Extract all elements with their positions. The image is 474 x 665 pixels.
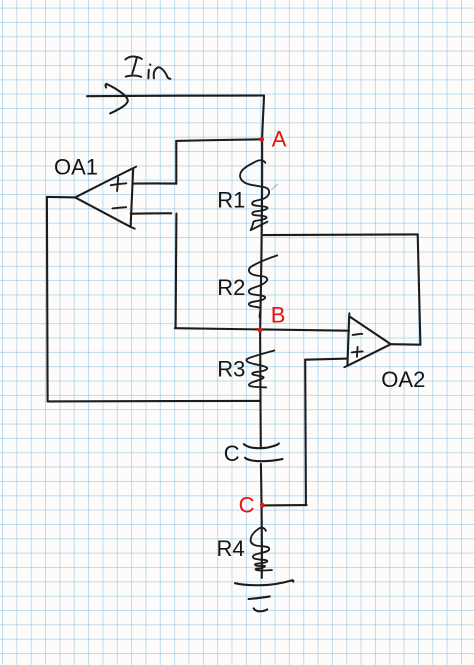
OA1 corner overshoots [133,167,136,169]
wire node C stub right [262,504,306,506]
wire OA2 plus drop vertical [304,360,307,505]
ground bar 3 [254,608,268,611]
label Iin handwritten [125,57,170,79]
svg-text:R2: R2 [217,275,245,300]
node C dot [260,503,265,508]
wire right feedback vertical [418,234,421,344]
wire minus input vertical drop [175,214,178,328]
wire left feedback vertical [46,197,49,402]
svg-text:C: C [239,492,255,517]
resistor R2 [249,255,277,317]
wire OA1 output [47,196,75,199]
op-amp OA2 [347,316,390,366]
resistor R3 [246,351,274,388]
wire bottom feedback horizontal [48,400,260,403]
wire trunk node B to capacitor [259,330,262,446]
capacitor C bottom plate [245,458,282,461]
svg-text:R3: R3 [217,356,245,381]
svg-text:A: A [272,126,287,151]
wire trunk capacitor to ground [261,464,262,578]
wire OA1 plus input [133,182,176,184]
node A dot [259,137,264,142]
arrow input current [106,84,128,114]
resistor R4 [251,528,272,571]
svg-text:B: B [271,303,286,328]
pencil smudge [272,184,278,189]
svg-text:C: C [224,441,240,466]
capacitor C top plate [244,444,279,449]
node B dot [258,328,263,333]
svg-text:OA1: OA1 [54,155,98,180]
ground bar 2 [249,596,270,599]
resistor R1 [240,160,269,230]
wire OA1 minus input [131,212,172,215]
OA2 corner overshoots [348,313,350,316]
wire vertical from A stub to plus input [175,141,177,184]
OA1 plus sign [111,183,127,185]
wire node A stub horizontal [176,139,262,141]
wire vertical lead to node A [262,96,264,140]
wire junction to OA2 feedback horizontal [263,233,418,236]
wire top input horizontal [87,94,264,97]
wire OA2 output [391,343,421,346]
ground bar 1 [235,580,293,585]
svg-text:R4: R4 [217,536,245,561]
OA2 plus sign [352,351,363,352]
wire node B horizontal [175,328,349,331]
op-amp OA1 [75,168,133,227]
svg-text:OA2: OA2 [381,367,425,392]
OA1 minus sign [112,207,126,208]
OA2 minus sign [353,334,363,335]
wire trunk node A to node B [260,139,262,330]
svg-text:R1: R1 [217,188,245,213]
wire OA2 plus input [305,359,347,360]
